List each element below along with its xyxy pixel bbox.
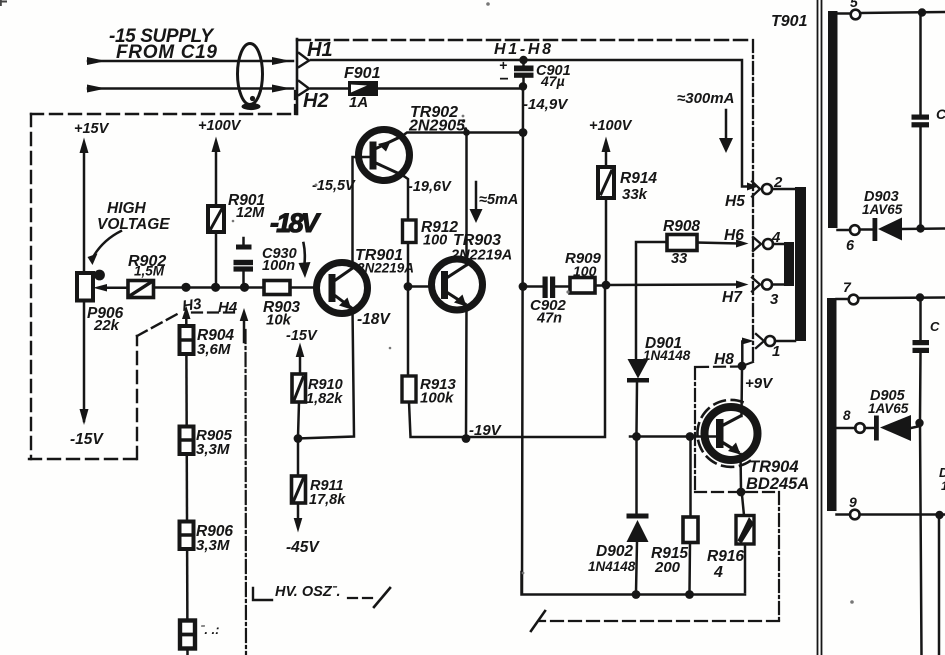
junction dot C902 node [519,282,528,291]
resistor R902 1,5M [128,281,154,298]
wire TR902 collector down to R912 [403,176,408,221]
svg-text:3: 3 [770,291,779,308]
svg-text:1N4148: 1N4148 [643,348,691,363]
svg-text:-15V: -15V [70,431,104,448]
label +100V with up arrow [198,118,242,134]
resistor R907 bottom [180,621,195,649]
junction dot H2/C901 [519,82,527,90]
svg-text:C: C [936,106,945,122]
svg-text:R916: R916 [707,548,744,565]
junction dot on H1 wire [519,56,527,64]
secondary winding bar lower [827,298,837,511]
svg-text:1N4148: 1N4148 [588,559,636,574]
wire H8 node to terminal 1 [741,342,744,364]
wire D905 node down [920,423,922,655]
transistor TR901 2N2219A NPN [317,263,368,314]
svg-text:3,6M: 3,6M [197,341,231,358]
resistor R905 3,3M [180,427,194,455]
svg-text:33k: 33k [622,186,648,203]
svg-text:1: 1 [772,343,780,360]
text HV. OSZC. with bracket [253,588,272,600]
transformer core double line [817,0,819,655]
svg-text:VOLTAGE: VOLTAGE [97,216,170,233]
wire H2 to fuse [311,87,348,90]
svg-text:1A: 1A [349,94,368,111]
svg-text:3,3M: 3,3M [196,537,230,554]
terminal 6 [838,229,851,232]
svg-text:BD245A: BD245A [746,475,809,493]
terminal 1 [756,334,764,348]
svg-text:22k: 22k [93,317,120,334]
capacitor C902 47n [527,285,543,288]
label -19,6V [408,179,452,195]
svg-text:100n: 100n [262,258,295,274]
terminal 7 [837,298,849,301]
svg-text:1,5M: 1,5M [134,264,165,279]
svg-text:H1-H8: H1-H8 [494,41,551,58]
svg-text:200: 200 [654,559,681,576]
label +100V with arrow (R914) [589,118,633,134]
dashed arc around TR904 [697,400,750,467]
dashed box right edge [136,336,138,459]
svg-text:-18V: -18V [270,208,321,238]
wire TR904 collector to +9V node [740,369,743,416]
terminal 8 [837,427,856,430]
label H5 [725,193,745,210]
svg-text:9: 9 [849,494,857,510]
resistor R906 3,3M [180,522,194,550]
current arrow 300mA [677,90,734,107]
svg-text:R914: R914 [620,170,657,187]
svg-text:H6: H6 [724,227,744,244]
resistor R901 12M [208,206,224,232]
label -15,5V [312,178,356,194]
wire TR902 emitter to -14,9V line [402,133,523,137]
svg-text:H8: H8 [714,351,734,368]
node H3 junction dot [181,283,190,292]
label -15V with up arrow (R910) [286,328,318,344]
svg-text:ˉ. .:: ˉ. .: [200,622,220,637]
diode D905 1AV65 [865,427,876,430]
wire P906 bottom to -15V [83,301,86,422]
junction dot D901/D902/base [632,432,641,441]
wire supply line 1 [88,60,293,63]
node H2 label [303,90,329,112]
svg-text:H1: H1 [307,39,333,61]
resistor R909 100 [570,278,595,294]
resistor R903 10k [264,281,290,295]
dashed line H4 going down [244,330,247,655]
filter capacitor mid right [919,299,922,341]
wire fuse to C901 node [378,87,519,90]
wire TR904 emitter down [739,454,742,489]
corner mark [0,0,6,5]
svg-text:H2: H2 [303,90,329,112]
cable bundle oval [238,44,263,105]
svg-text:-19V: -19V [469,422,503,439]
svg-text:HV. OSZˉ.: HV. OSZˉ. [275,584,341,600]
connector bracket H1 H2 [296,39,299,114]
net -14,9V vertical wire [522,90,523,594]
cut label fragments right edge [939,465,945,493]
svg-text:-45V: -45V [286,539,320,556]
transistor TR902 2N2905 PNP [359,130,410,181]
svg-text:≈300mA: ≈300mA [677,90,734,107]
curved pointer arrow to P906 [93,231,121,257]
svg-text:47µ: 47µ [540,73,565,89]
svg-text:-18V: -18V [357,311,391,328]
svg-text:1AV65: 1AV65 [862,202,903,217]
svg-text:1AV65: 1AV65 [868,401,909,416]
svg-text:2N2219A: 2N2219A [356,261,414,276]
capacitor C901 47u [522,60,525,66]
svg-text:R908: R908 [663,218,700,235]
dash-dot module boundary right edge [752,40,754,360]
diode D903 1AV65 [860,228,874,231]
wire H6 to terminal 4 [697,243,738,244]
svg-text:HIGH: HIGH [107,200,147,217]
svg-text:4: 4 [771,229,781,246]
paper specks [232,2,854,604]
resistor R913 100k [402,376,416,402]
svg-text:5: 5 [850,0,858,10]
terminal 3 [752,278,760,292]
svg-text:D902: D902 [596,543,633,560]
resistor R916 4 [736,516,754,545]
diode D902 1N4148 [627,514,649,519]
dash between H3 H4 [192,311,240,313]
svg-text:100k: 100k [420,390,454,407]
junction TR903 collector on emitter wire [463,129,470,136]
transformer T901 label [771,13,808,30]
svg-text:1,82k: 1,82k [306,391,343,407]
wire TR902 base to TR901 collector [353,157,370,263]
svg-text:−: − [499,71,508,88]
svg-text:-15V: -15V [286,328,318,344]
wire R911 to -45V arrow [297,503,300,518]
wire TR903 emitter down [465,306,468,439]
node R901 junction dot [211,283,220,292]
resistor chain wire [186,326,187,655]
svg-text:≈5mA: ≈5mA [479,192,518,208]
resistor R911 17,8k [297,440,300,476]
svg-text:12M: 12M [236,205,265,221]
wire TR903 collector up [465,133,468,266]
text HIGH VOLTAGE [97,200,170,233]
dashed box left edge [30,114,32,459]
resistor R904 3,6M [180,326,194,354]
svg-text:6: 6 [846,238,855,254]
svg-text:8: 8 [843,408,851,423]
resistor R912 100 [403,220,417,243]
node H3 label and arrow [181,295,203,315]
dashed box left module top edge [31,113,296,115]
fuse F901 1A [348,81,378,96]
svg-text:H7: H7 [722,289,743,306]
node H4 label and arrow [218,299,238,316]
capacitor C930 100n [242,238,245,245]
svg-text:-19,6V: -19,6V [408,179,452,195]
wire H7 to terminal 3 [606,283,737,286]
svg-text:1: 1 [941,479,945,493]
svg-text:D: D [939,465,945,480]
svg-text:+100V: +100V [198,118,242,134]
svg-text:47n: 47n [536,311,562,327]
filter capacitor top right [919,14,922,115]
svg-text:-15,5V: -15,5V [312,178,356,194]
primary winding inner bar [784,242,794,286]
label -19V [469,422,503,439]
svg-text:TR903: TR903 [453,232,501,249]
svg-text:100: 100 [573,263,597,279]
svg-text:T901: T901 [771,13,808,30]
node H4/C930 junction dot [240,283,249,292]
svg-text:C: C [930,319,940,334]
dashed stub to H2 corner [294,91,296,114]
big annotation -18V [270,208,321,238]
wire TR901 emitter down and left [298,309,354,439]
svg-text:H5: H5 [725,193,745,210]
node H1-H8 label [494,41,551,58]
wire supply line 2 [88,87,293,90]
dash-dot boundary across TR904 emitter [695,491,779,493]
dash-dot boundary vertical x695 [694,367,696,492]
label +15V with up arrow [74,121,110,137]
resistor R915 200 [683,517,698,543]
dash-dot boundary H8 left [695,365,742,368]
wire H1 to H5 [311,60,748,187]
terminal 5 [838,12,851,15]
svg-text:17,8k: 17,8k [309,492,346,508]
wire R913 to -19V rail [409,288,605,437]
junction dot R910/R911 [294,434,303,443]
current arrow 5mA [475,182,478,209]
transistor TR904 BD245A NPN [705,407,758,460]
transistor TR903 2N2219A NPN [432,259,483,310]
svg-text:2N2219A: 2N2219A [450,248,512,264]
dash-dot boundary vertical x779 [778,492,780,621]
resistor R914 33k [598,167,614,198]
terminal 9 [837,513,851,516]
node H1 label [307,39,333,61]
primary winding outer bar [795,187,806,341]
svg-text:100: 100 [423,233,447,249]
svg-text:4: 4 [713,564,723,581]
terminal 2 [752,182,760,197]
dashed box bottom edge [29,458,137,460]
svg-text:F901: F901 [344,65,381,82]
diode D901 1N4148 [628,359,649,379]
svg-text:10k: 10k [266,312,292,329]
junction dot H8 node [738,362,747,371]
small down arrow under -18V [304,243,305,264]
secondary winding bar upper [828,11,838,228]
junction dot R909/R914/H7 [602,281,611,290]
wire R912 to TR903 base node [407,243,410,377]
wire TR904 base [630,435,716,438]
svg-text:TR904: TR904 [749,458,799,476]
bottom rail wire [522,572,746,595]
dashed bottom boundary [540,620,779,622]
main bias wire [154,286,265,289]
dashed module boundary top edge [297,39,753,42]
title text -15 SUPPLY FROM C19 [109,26,217,63]
resistor R910 1,82k [292,374,306,402]
svg-text:2: 2 [773,174,783,191]
svg-text:-14,9V: -14,9V [523,96,569,113]
svg-text:3,3M: 3,3M [196,441,230,458]
potentiometer P906 22k [77,273,93,301]
svg-text:+100V: +100V [589,118,633,134]
dashed diagonal to H3 [137,312,181,336]
svg-text:33: 33 [671,251,687,267]
resistor R908 33 [636,242,667,359]
svg-text:+15V: +15V [74,121,110,137]
svg-text:+9V: +9V [745,375,774,392]
svg-text:7: 7 [843,279,852,295]
terminal 4 [753,237,761,251]
